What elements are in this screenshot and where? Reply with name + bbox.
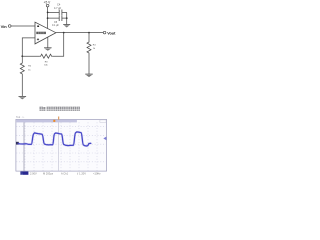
wire bypass rail top [48, 11, 67, 13]
cursor vertical line [23, 122, 25, 170]
svg-text:4.7 µF: 4.7 µF [54, 7, 62, 10]
svg-text:R2: R2 [28, 66, 32, 68]
trigger level marker right [103, 137, 106, 141]
trigger position vertical line [58, 122, 60, 170]
node Vout terminal [103, 31, 106, 34]
svg-text:M 200µs: M 200µs [43, 172, 54, 176]
scope grid horizontal [16, 127, 106, 162]
svg-text:10k: 10k [44, 65, 48, 67]
scope screenshot [16, 115, 107, 176]
node +5V power terminal [46, 4, 49, 7]
junction hysteresis node [21, 55, 23, 57]
svg-text:Vout: Vout [107, 31, 116, 35]
ground bypass [63, 24, 70, 26]
svg-text:Vin: Vin [1, 24, 8, 29]
trigger marker orange tick above frame [58, 117, 59, 120]
junction on +5V rail top [47, 12, 49, 14]
svg-text:1k: 1k [28, 69, 31, 71]
wire +5V rail vertical [47, 7, 49, 29]
waveform trace [18, 132, 91, 146]
channel marker left [16, 142, 19, 145]
label LM8261 [36, 32, 46, 34]
caption figure text [40, 107, 80, 111]
junction output load [88, 32, 90, 34]
wire Vin to inverting input [11, 25, 35, 27]
junction bypass rail [66, 17, 68, 19]
svg-text:+5 V: +5 V [44, 1, 52, 5]
svg-text:2.00V: 2.00V [30, 172, 37, 176]
svg-text:1k: 1k [93, 48, 96, 50]
resistor R3 feedback [40, 54, 53, 58]
resistor R4 load [87, 33, 91, 75]
status bar channel box [20, 172, 28, 175]
svg-text:0.1 µF: 0.1 µF [52, 24, 59, 27]
svg-text:C4: C4 [57, 2, 61, 6]
scope grid vertical [25, 122, 97, 170]
svg-text:ƒ 1.20V: ƒ 1.20V [77, 172, 86, 176]
ground R4 [85, 73, 93, 75]
ground op-amp [44, 47, 52, 49]
svg-text:Tek: Tek [16, 115, 21, 119]
op-amp U1 [35, 22, 56, 44]
resistor R2 [20, 56, 24, 96]
pin plus sign [37, 38, 39, 40]
wire feedback to junction [22, 55, 39, 57]
svg-text:<10Hz: <10Hz [93, 172, 101, 176]
junction on +5V rail bottom [47, 17, 49, 19]
wire feedback vertical [53, 33, 64, 57]
wire output [56, 32, 103, 34]
capacitor C4 [59, 10, 62, 16]
wire non-inverting input [22, 38, 35, 56]
svg-text:R4: R4 [93, 44, 97, 46]
trigger position marker orange square [53, 120, 55, 122]
node Vin terminal [8, 25, 11, 28]
capacitor C5 [59, 15, 62, 21]
svg-text:R3: R3 [45, 61, 49, 63]
wire bypass down to ground [66, 12, 68, 24]
wire V- pin down [47, 37, 49, 48]
scope header band [16, 120, 77, 123]
junction output feedback [63, 32, 65, 34]
svg-text:A Ch1: A Ch1 [61, 172, 69, 176]
wire bypass rail bottom [48, 17, 67, 19]
pin minus sign [37, 26, 39, 28]
scope frame [16, 119, 107, 171]
ground R2 [19, 95, 27, 97]
svg-text:.n..: .n.. [22, 116, 26, 119]
